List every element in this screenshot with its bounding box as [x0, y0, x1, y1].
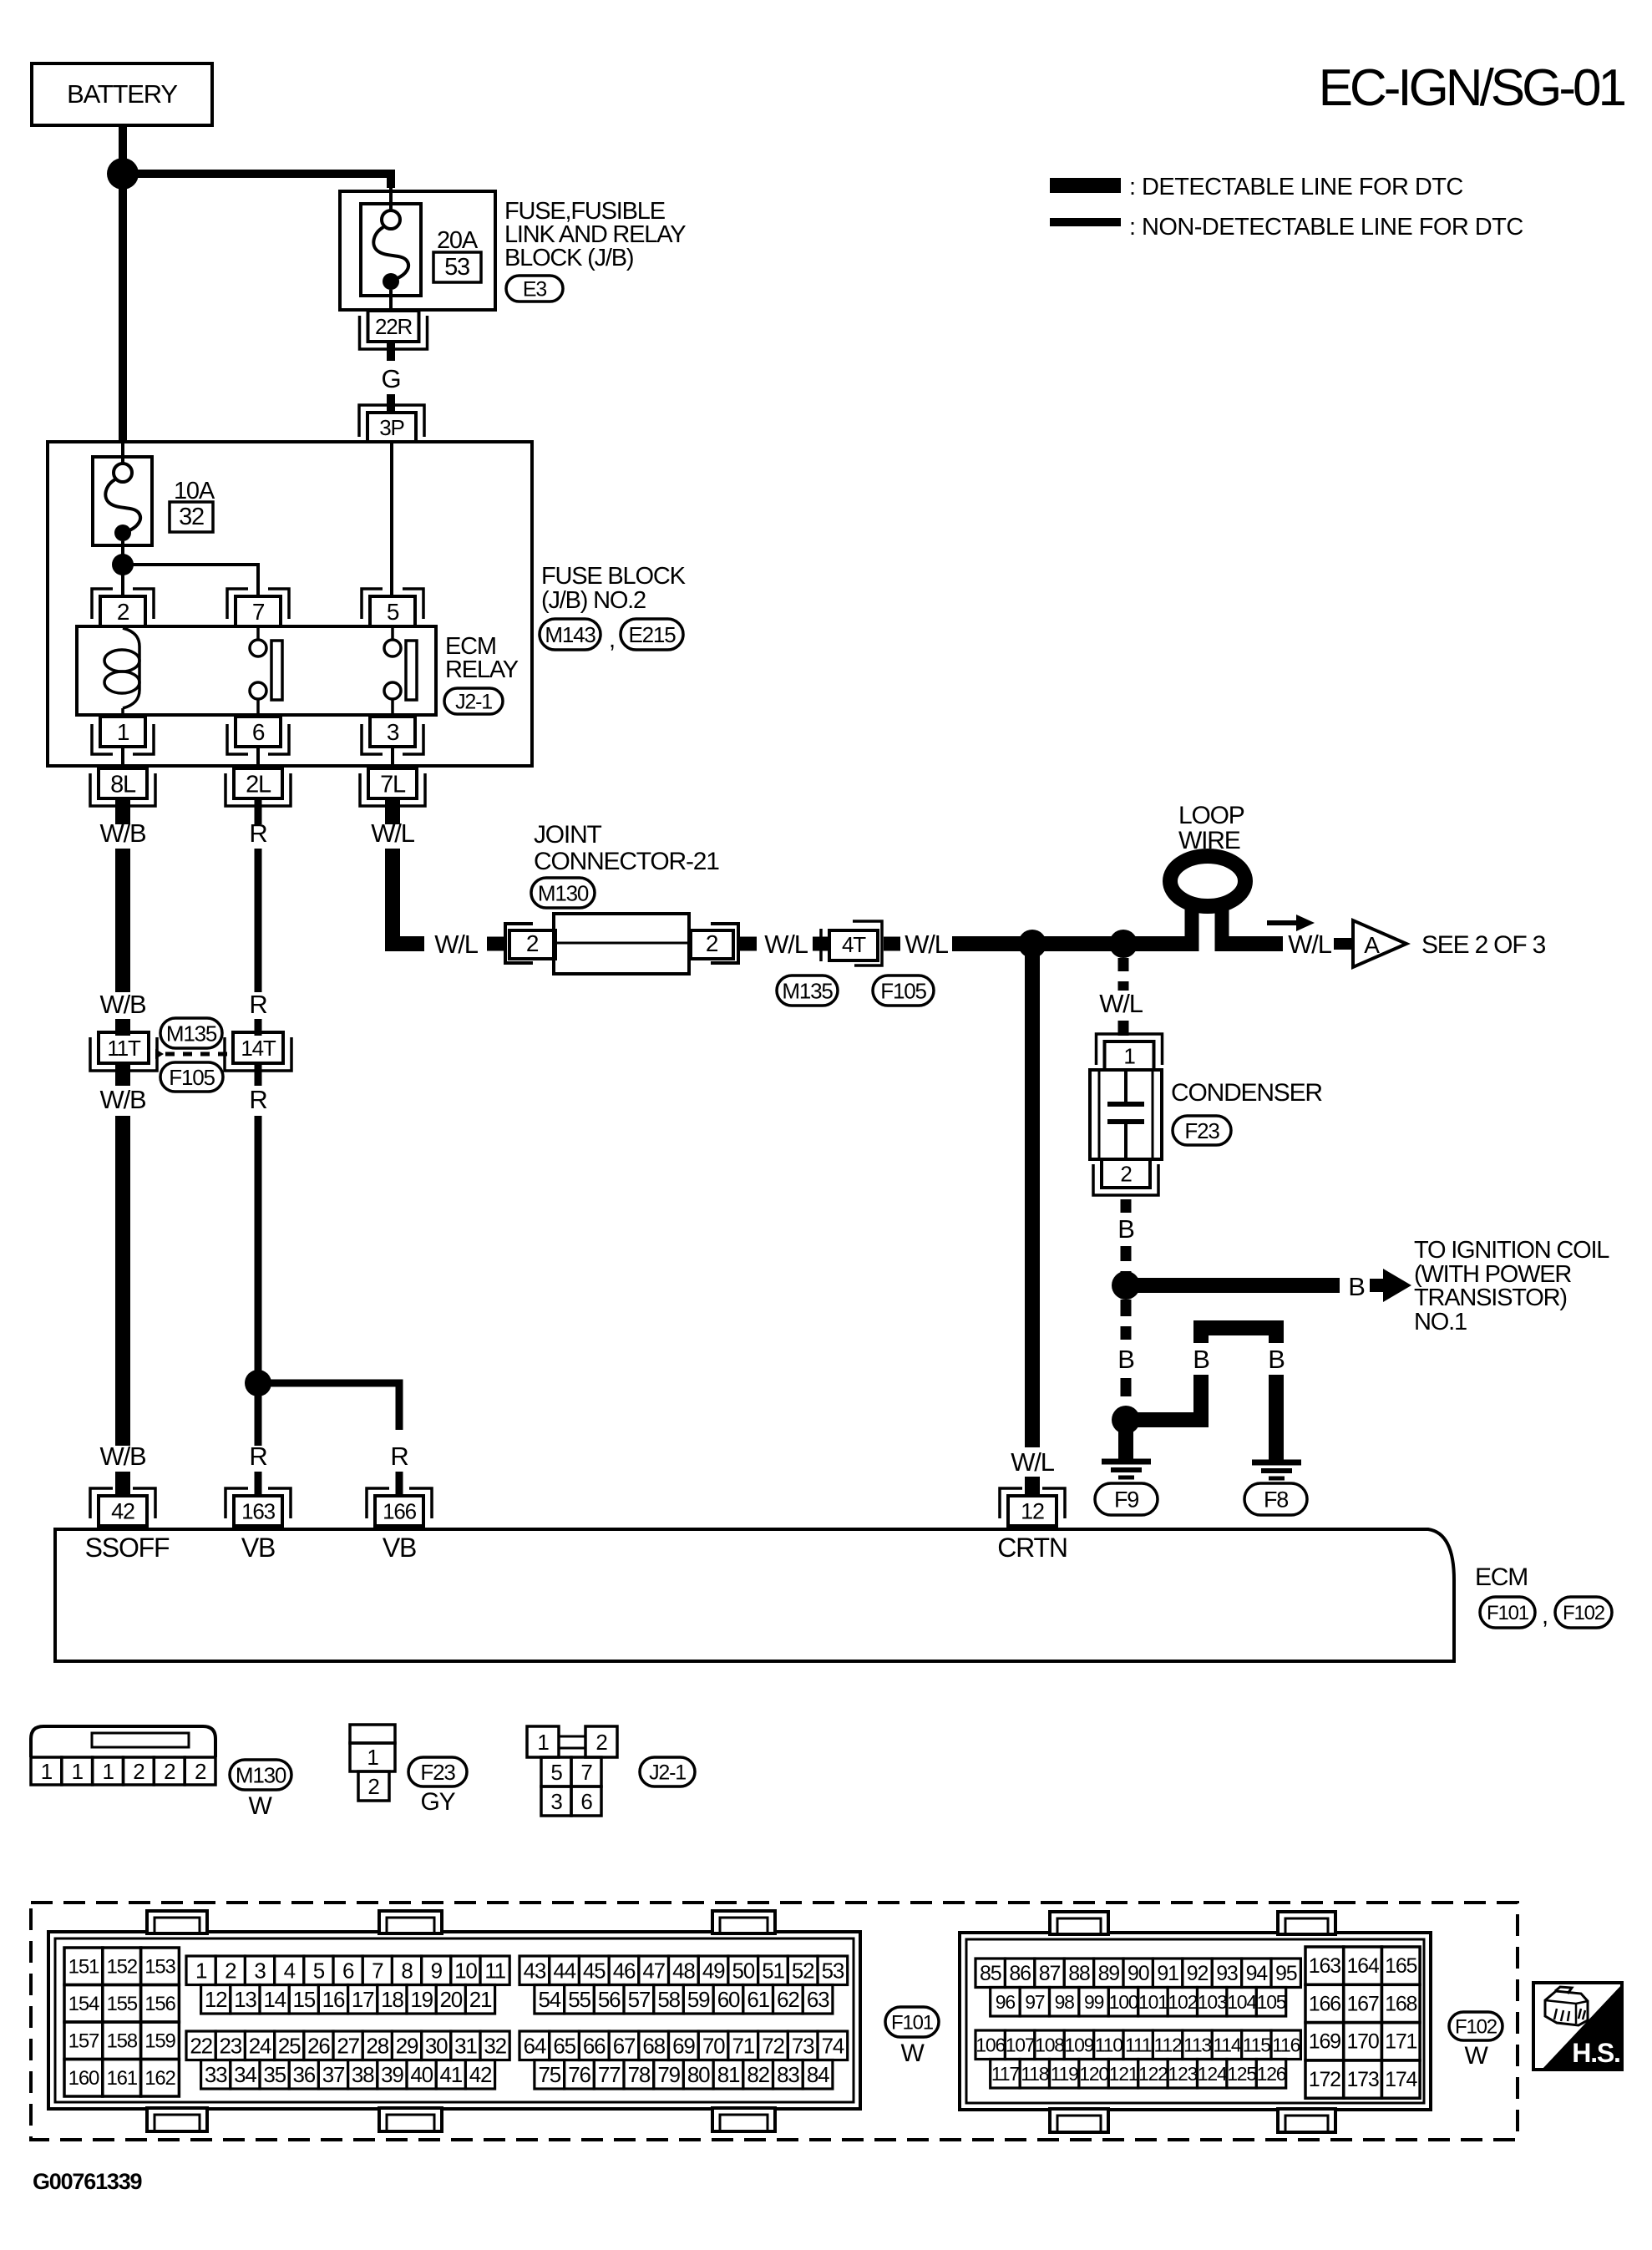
svg-text:F105: F105: [880, 978, 926, 1003]
joint connector right pin 2: [691, 924, 738, 963]
svg-text:22: 22: [190, 2034, 212, 2059]
label loop wire: [1178, 802, 1244, 854]
label W color F102: [1464, 2042, 1488, 2070]
svg-text:19: 19: [410, 1987, 433, 2012]
ECM box: [55, 1529, 1454, 1661]
wire color W/B label 3: [100, 1085, 146, 1114]
relay coil: [104, 628, 139, 718]
connector F101 ref 2: [885, 2007, 939, 2037]
svg-text:W: W: [1464, 2042, 1488, 2070]
svg-text:99: 99: [1084, 1991, 1104, 2013]
svg-text:R: R: [249, 990, 266, 1019]
connector F105: [873, 976, 934, 1006]
svg-text:RELAY: RELAY: [445, 656, 519, 683]
relay pin 2: [92, 589, 154, 626]
connector M135: [777, 976, 838, 1006]
wire W/B long down: [115, 1116, 130, 1446]
svg-text:52: 52: [792, 1959, 814, 1984]
svg-text:: NON-DETECTABLE LINE FOR DTC: : NON-DETECTABLE LINE FOR DTC: [1129, 214, 1523, 241]
wire fuse 10A to node B: [121, 541, 124, 565]
svg-text:71: 71: [732, 2034, 755, 2059]
wire node G to F8 ground bridge: [1126, 1320, 1284, 1462]
wire color W/L label 5: [1288, 930, 1331, 959]
svg-text:6: 6: [252, 719, 265, 745]
svg-text:23: 23: [220, 2034, 242, 2059]
svg-text:91: 91: [1157, 1962, 1178, 1985]
harness split arrow 11T-14T: [155, 1049, 164, 1059]
pin 7L: [360, 768, 425, 806]
svg-text:12: 12: [205, 1987, 227, 2012]
figure id G00761339: [33, 2169, 143, 2194]
ground F8: [1252, 1462, 1301, 1478]
wire color R label 1: [249, 818, 266, 848]
wire node C to pin 163: [255, 1383, 262, 1446]
svg-text:115: 115: [1243, 2035, 1270, 2056]
dashed link 11T to 14T: [165, 1052, 227, 1057]
svg-text:163: 163: [1309, 1954, 1340, 1978]
svg-text:112: 112: [1154, 2035, 1182, 2056]
svg-text:E3: E3: [523, 278, 546, 302]
svg-text:101: 101: [1138, 1991, 1168, 2013]
wire R stub below 14T: [255, 1063, 262, 1086]
connector F8: [1244, 1483, 1307, 1515]
svg-text:2: 2: [595, 1730, 607, 1755]
svg-text:160: 160: [68, 2067, 99, 2090]
svg-text:BLOCK (J/B): BLOCK (J/B): [504, 245, 633, 271]
wire 8L stub: [115, 800, 130, 824]
svg-text:2L: 2L: [246, 771, 271, 798]
svg-text:98: 98: [1055, 1991, 1075, 2013]
svg-text:5: 5: [313, 1959, 325, 1984]
svg-text:25: 25: [278, 2034, 301, 2059]
connector F102 ref: [1555, 1597, 1612, 1628]
svg-text:103: 103: [1198, 1991, 1227, 2013]
pin 3P: [359, 405, 424, 442]
ECM pin 163: [226, 1488, 291, 1526]
svg-text:W/L: W/L: [1011, 1447, 1054, 1477]
svg-text:68: 68: [642, 2034, 665, 2059]
wire B dash into node G: [1121, 1378, 1132, 1405]
svg-text:151: 151: [68, 1956, 99, 1979]
svg-text:166: 166: [1309, 1992, 1340, 2015]
svg-text:13: 13: [234, 1987, 256, 2012]
svg-text:R: R: [249, 1085, 266, 1114]
svg-text:171: 171: [1385, 2030, 1416, 2054]
ECM pin 166: [367, 1488, 432, 1526]
off-page arrow to ignition coil: [1370, 1269, 1411, 1302]
svg-text:78: 78: [628, 2062, 651, 2087]
svg-text:8L: 8L: [110, 771, 136, 798]
pin 11T: [90, 1032, 157, 1071]
svg-text:155: 155: [106, 1993, 137, 2015]
wire node F to ignition coil: [1126, 1278, 1340, 1293]
wire stub to 4T: [813, 937, 831, 951]
svg-text:164: 164: [1346, 1954, 1379, 1978]
svg-text:E215: E215: [629, 622, 677, 647]
connector F9: [1095, 1483, 1158, 1515]
svg-text:110: 110: [1095, 2035, 1122, 2056]
wire B dashed condenser to node F: [1121, 1199, 1132, 1213]
svg-text:46: 46: [613, 1959, 636, 1984]
svg-text:84: 84: [807, 2062, 829, 2087]
svg-text:3: 3: [387, 719, 399, 745]
wire 4T to loop wire: [952, 936, 1192, 951]
connector M130: [531, 878, 595, 908]
svg-text:F9: F9: [1114, 1487, 1138, 1513]
svg-text:81: 81: [717, 2062, 740, 2087]
svg-text:B: B: [1348, 1272, 1365, 1301]
svg-text:69: 69: [672, 2034, 695, 2059]
node B junction dot: [112, 554, 134, 575]
svg-text:11T: 11T: [107, 1036, 141, 1061]
svg-text:119: 119: [1051, 2063, 1078, 2085]
svg-text:J2-1: J2-1: [649, 1761, 686, 1785]
svg-text:24: 24: [249, 2034, 271, 2059]
svg-text:20: 20: [440, 1987, 463, 2012]
connector M143: [540, 619, 600, 650]
svg-text:,: ,: [609, 626, 615, 653]
svg-text:74: 74: [822, 2034, 844, 2059]
wire W/L dash stub to condenser pin 1: [1118, 1021, 1129, 1036]
connector E3: [506, 276, 563, 302]
svg-text:126: 126: [1257, 2063, 1286, 2085]
svg-text:97: 97: [1025, 1991, 1045, 2013]
svg-text:21: 21: [469, 1987, 492, 2012]
relay contact 5-3: [384, 626, 417, 718]
svg-text:45: 45: [583, 1959, 606, 1984]
wire W/B down to 11T: [115, 849, 130, 992]
svg-text:92: 92: [1187, 1962, 1209, 1985]
svg-text:7L: 7L: [380, 771, 406, 798]
joint connector-21 body: [554, 914, 689, 974]
svg-text:7: 7: [580, 1760, 592, 1785]
svg-text:LOOP: LOOP: [1178, 802, 1244, 829]
svg-text:7: 7: [252, 599, 265, 625]
fuse block (J/B) no.2 outline: [48, 442, 532, 766]
svg-text:VB: VB: [241, 1533, 275, 1563]
svg-text:82: 82: [747, 2062, 769, 2087]
svg-text:113: 113: [1183, 2035, 1211, 2056]
label to ignition coil: [1414, 1237, 1609, 1335]
svg-text:121: 121: [1109, 2063, 1138, 2085]
svg-text:F102: F102: [1563, 1602, 1605, 1624]
wire color B label 3: [1117, 1345, 1134, 1374]
svg-text:M143: M143: [545, 622, 595, 647]
svg-text:48: 48: [672, 1959, 695, 1984]
svg-text:26: 26: [307, 2034, 330, 2059]
wire 7L stub: [385, 800, 400, 824]
relay pin 7: [227, 589, 289, 626]
svg-text:2: 2: [195, 1759, 206, 1784]
wire color R label 5: [390, 1442, 408, 1471]
svg-text:111: 111: [1125, 2035, 1152, 2056]
node F junction dot: [1112, 1271, 1140, 1300]
svg-text:51: 51: [762, 1959, 784, 1984]
svg-text:W: W: [900, 2040, 925, 2067]
svg-text:1: 1: [537, 1730, 549, 1755]
wire color W/L label 3: [764, 930, 808, 959]
svg-text:SEE 2 OF 3: SEE 2 OF 3: [1421, 931, 1546, 959]
svg-text:W/L: W/L: [905, 930, 948, 959]
wire color W/L label 6: [1011, 1447, 1054, 1477]
condenser pin 1: [1097, 1034, 1163, 1070]
pin 8L: [90, 768, 155, 806]
svg-text:F101: F101: [891, 2012, 934, 2035]
wire W/B stub into 11T: [115, 1019, 130, 1036]
svg-text:16: 16: [322, 1987, 345, 2012]
node E junction dot: [1109, 930, 1138, 958]
svg-text:1: 1: [367, 1745, 378, 1770]
svg-text:83: 83: [777, 2062, 799, 2087]
wire relay pin 6 to 2L: [256, 747, 260, 770]
svg-text:170: 170: [1346, 2030, 1378, 2054]
wire W/L down and right: [393, 849, 424, 944]
svg-text:56: 56: [598, 1987, 621, 2012]
connector F101 ref: [1480, 1597, 1535, 1628]
svg-text:163: 163: [241, 1498, 276, 1523]
svg-text:(J/B) NO.2: (J/B) NO.2: [541, 587, 646, 614]
svg-text:W/L: W/L: [764, 930, 808, 959]
svg-text:VB: VB: [383, 1533, 416, 1563]
ECM connector F101 housing: [48, 1911, 860, 2131]
svg-text:41: 41: [440, 2062, 463, 2087]
svg-text:108: 108: [1035, 2035, 1064, 2056]
svg-text:53: 53: [822, 1959, 844, 1984]
svg-text:50: 50: [732, 1959, 755, 1984]
svg-text:M135: M135: [166, 1021, 217, 1046]
wire R stub to pin 163: [255, 1472, 262, 1497]
svg-text:W/L: W/L: [1099, 989, 1143, 1018]
relay contact 7-6: [250, 626, 282, 718]
svg-text:96: 96: [996, 1991, 1016, 2013]
svg-text:64: 64: [524, 2034, 546, 2059]
svg-text:76: 76: [568, 2062, 590, 2087]
svg-text:42: 42: [111, 1499, 134, 1524]
svg-text:W/L: W/L: [371, 818, 414, 848]
svg-text:104: 104: [1227, 1991, 1257, 2013]
svg-text:F23: F23: [420, 1760, 455, 1785]
comma separator 2: [1542, 1603, 1548, 1629]
wire color W/B label 2: [100, 990, 146, 1019]
svg-text:90: 90: [1128, 1962, 1149, 1985]
svg-text:37: 37: [322, 2062, 345, 2087]
svg-text:30: 30: [425, 2034, 448, 2059]
svg-text:F101: F101: [1487, 1602, 1529, 1624]
svg-text:88: 88: [1068, 1962, 1090, 1985]
label ECM: [1475, 1563, 1528, 1591]
svg-text:105: 105: [1257, 1991, 1286, 2013]
svg-text:1: 1: [102, 1759, 114, 1784]
svg-text:G00761339: G00761339: [33, 2169, 143, 2194]
wire 22R to G: [387, 343, 395, 361]
svg-text:123: 123: [1168, 2063, 1197, 2085]
svg-text:CRTN: CRTN: [997, 1533, 1067, 1563]
svg-text:79: 79: [657, 2062, 680, 2087]
condenser F23: [1090, 1070, 1162, 1159]
svg-text:62: 62: [777, 1987, 799, 2012]
svg-text:W/B: W/B: [100, 1085, 146, 1114]
svg-text:93: 93: [1216, 1962, 1238, 1985]
svg-text:36: 36: [293, 2062, 316, 2087]
wire color B label 4: [1193, 1345, 1209, 1374]
svg-text:4T: 4T: [842, 932, 866, 957]
svg-text:J2-1: J2-1: [455, 691, 492, 714]
F102 terminals 163-174: [1305, 1947, 1420, 2098]
wire B dash to node F: [1121, 1246, 1132, 1273]
fuse 10A/32: [93, 457, 215, 545]
svg-text:38: 38: [352, 2062, 374, 2087]
svg-text:F105: F105: [169, 1065, 215, 1090]
svg-text:87: 87: [1039, 1962, 1061, 1985]
svg-text:106: 106: [975, 2035, 1005, 2056]
svg-text:20A: 20A: [437, 227, 479, 254]
svg-text:63: 63: [807, 1987, 829, 2012]
svg-text:4: 4: [284, 1959, 296, 1984]
wire node C branch to pin 166: [258, 1383, 399, 1430]
condenser pin 2: [1093, 1159, 1158, 1195]
svg-text:3: 3: [550, 1789, 562, 1814]
svg-text:R: R: [249, 818, 266, 848]
svg-text:59: 59: [687, 1987, 710, 2012]
label fuse block (J/B) no.2: [541, 563, 687, 614]
wire battery to node A: [119, 125, 127, 167]
svg-text:122: 122: [1138, 2063, 1168, 2085]
wire 2L stub: [255, 800, 262, 824]
svg-text:H.S.: H.S.: [1572, 2038, 1619, 2068]
connector F23 ref 2: [408, 1757, 467, 1786]
svg-text:6: 6: [342, 1959, 354, 1984]
svg-text:W/L: W/L: [1288, 930, 1331, 959]
connector view J2-1: [527, 1726, 617, 1816]
wire node B to relay pin 7: [123, 565, 258, 598]
svg-text:124: 124: [1198, 2063, 1228, 2085]
svg-text:107: 107: [1006, 2035, 1035, 2056]
wire color W/L label 2: [434, 930, 478, 959]
svg-text:86: 86: [1009, 1962, 1031, 1985]
svg-text:32: 32: [484, 2034, 506, 2059]
wire color R label 3: [249, 1085, 266, 1114]
wire node A down to fuse 10A: [119, 174, 127, 466]
svg-text:3: 3: [254, 1959, 266, 1984]
svg-text:168: 168: [1385, 1992, 1416, 2015]
svg-text:60: 60: [717, 1987, 740, 2012]
wire W/L stub to pin 12: [1025, 1477, 1040, 1497]
wire B dashed node F to node G: [1121, 1300, 1132, 1340]
svg-text:154: 154: [68, 1993, 99, 2015]
svg-text:W/L: W/L: [434, 930, 478, 959]
wire color B label 1: [1117, 1214, 1134, 1244]
svg-text:2: 2: [526, 930, 539, 956]
svg-text:JOINT: JOINT: [534, 821, 602, 849]
connector F23: [1173, 1116, 1231, 1145]
connector J2-1: [444, 688, 503, 714]
H.S. inspection icon: [1533, 1983, 1622, 2070]
svg-text:R: R: [249, 1442, 266, 1471]
svg-text:7: 7: [372, 1959, 383, 1984]
relay pin 5: [362, 589, 423, 626]
svg-text:2: 2: [225, 1959, 236, 1984]
svg-text:31: 31: [454, 2034, 477, 2059]
wire node A to fuse 20A: [123, 174, 391, 212]
svg-text:FUSE BLOCK: FUSE BLOCK: [541, 563, 687, 590]
wire relay pin 1 to 8L: [121, 747, 124, 770]
svg-text:34: 34: [234, 2062, 256, 2087]
label fuse,fusible link and relay block (J/B): [504, 198, 686, 271]
svg-text:167: 167: [1346, 1992, 1378, 2015]
svg-text:166: 166: [383, 1498, 417, 1523]
svg-text:10: 10: [454, 1959, 477, 1984]
svg-text:2: 2: [367, 1774, 379, 1799]
wire node B to relay pin 2: [121, 565, 124, 598]
svg-text:118: 118: [1021, 2063, 1048, 2085]
svg-text:B: B: [1193, 1345, 1209, 1374]
svg-text:B: B: [1117, 1214, 1134, 1244]
connector view M130: [31, 1726, 215, 1757]
svg-text:W/B: W/B: [100, 818, 146, 848]
svg-text:156: 156: [144, 1993, 175, 2015]
node A junction dot: [107, 158, 139, 190]
svg-text:2: 2: [164, 1759, 175, 1784]
svg-text:61: 61: [747, 1987, 769, 2012]
wire R long down to node C: [255, 1116, 262, 1383]
svg-text:157: 157: [68, 2030, 99, 2053]
label SSOFF: [85, 1533, 170, 1563]
svg-text:169: 169: [1309, 2030, 1340, 2054]
wire color B label 5: [1268, 1345, 1285, 1374]
wire W/L node D to pin 12: [1025, 951, 1040, 1447]
wire stub to joint connector: [487, 937, 506, 951]
svg-text:70: 70: [702, 2034, 725, 2059]
svg-text:109: 109: [1065, 2035, 1094, 2056]
svg-text:125: 125: [1227, 2063, 1256, 2085]
wire stub after 4T: [884, 937, 900, 951]
wire color W/L label 1: [371, 818, 414, 848]
svg-text:117: 117: [991, 2063, 1019, 2085]
svg-text:42: 42: [469, 2062, 492, 2087]
svg-text:R: R: [390, 1442, 408, 1471]
svg-text:28: 28: [367, 2034, 389, 2059]
ECM connector detail dashed frame: [31, 1903, 1518, 2140]
svg-text:10A: 10A: [174, 478, 215, 504]
pin 4T: [821, 921, 882, 965]
svg-text:EC-IGN/SG-01: EC-IGN/SG-01: [1319, 59, 1625, 117]
label GY color F23: [421, 1788, 456, 1816]
wire W/L dashed node E to condenser: [1118, 958, 1129, 991]
wire color R label 4: [249, 1442, 266, 1471]
svg-text:152: 152: [106, 1956, 137, 1979]
joint connector left pin 2: [505, 924, 555, 963]
ECM connector F102 housing: [960, 1912, 1431, 2132]
wire W/B stub to pin 42: [115, 1472, 130, 1497]
svg-text:,: ,: [1542, 1603, 1548, 1629]
connector J2-1 ref 2: [640, 1757, 695, 1786]
svg-text:27: 27: [337, 2034, 359, 2059]
svg-text:CONNECTOR-21: CONNECTOR-21: [534, 848, 719, 875]
svg-text:2: 2: [1120, 1161, 1132, 1186]
connector M130 ref: [230, 1760, 291, 1790]
label CRTN: [997, 1533, 1067, 1563]
F101 terminals 151-162: [64, 1948, 179, 2096]
svg-text:165: 165: [1385, 1954, 1416, 1978]
wire color G label: [382, 364, 401, 393]
F102 terminals 85-126: [975, 1959, 1300, 2088]
wire 3P to relay pin 5: [390, 442, 393, 598]
label W color F101: [900, 2040, 925, 2067]
svg-text:1: 1: [72, 1759, 84, 1784]
svg-text:116: 116: [1272, 2035, 1300, 2056]
svg-text:173: 173: [1346, 2068, 1378, 2091]
fuse 20A/53: [361, 204, 481, 296]
